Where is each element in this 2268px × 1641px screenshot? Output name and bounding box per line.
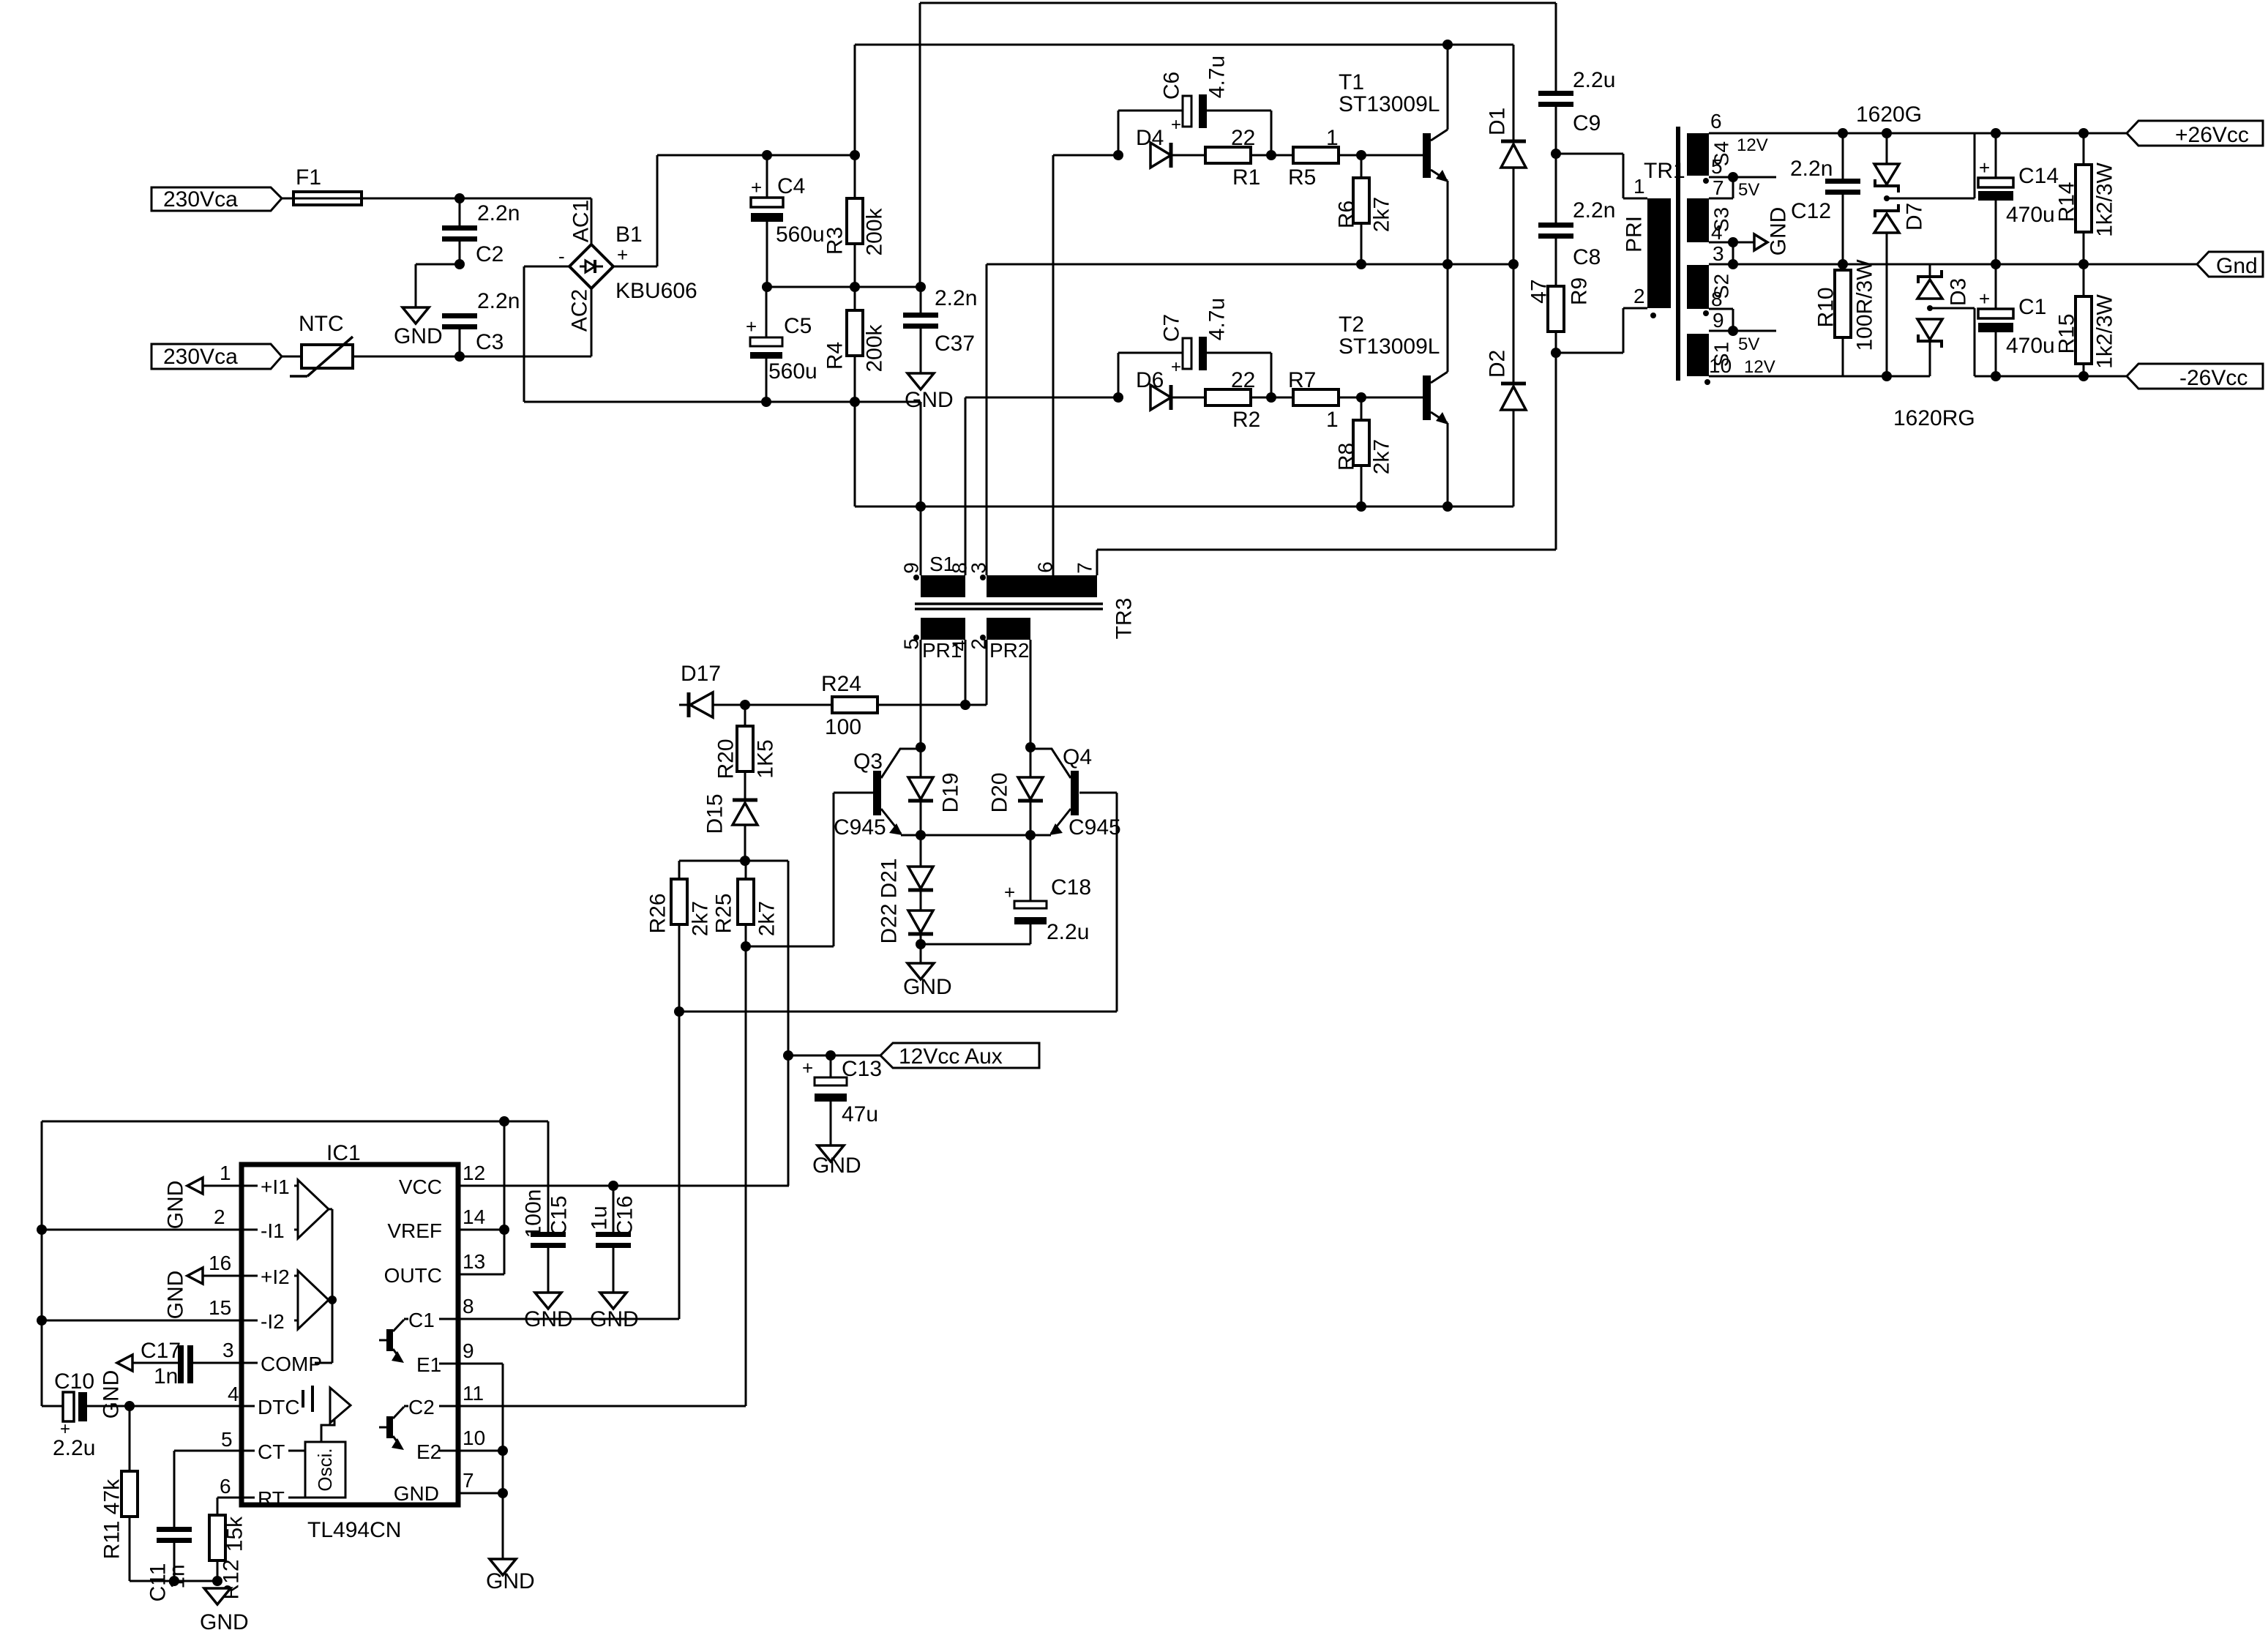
TR1 secondary S1 — [1687, 334, 1775, 377]
svg-text:3: 3 — [1713, 242, 1724, 265]
capacitor C17 1n — [141, 1339, 242, 1388]
junction C1 bottom — [1991, 371, 2001, 381]
left feedback rail — [42, 1116, 548, 1406]
diode D1 — [1486, 45, 1527, 264]
fuse F1 — [293, 165, 362, 205]
svg-text:GND: GND — [524, 1307, 573, 1331]
svg-text:R6: R6 — [1335, 201, 1359, 228]
resistor R25 2k7 — [712, 861, 779, 946]
capacitor C4 560u — [751, 155, 825, 287]
TR1 phase dots — [1703, 178, 1710, 385]
IC1 box — [242, 1141, 458, 1542]
svg-text:22: 22 — [1231, 368, 1255, 392]
wire PR1 pin5 down — [920, 640, 922, 747]
wire top rail to C15 — [547, 1121, 550, 1233]
capacitor C7 4.7u loop — [1118, 298, 1271, 397]
svg-text:+I2: +I2 — [261, 1266, 290, 1288]
svg-text:8: 8 — [1711, 288, 1723, 310]
svg-text:5: 5 — [1711, 155, 1723, 178]
junction R8 bottom — [1356, 501, 1366, 512]
transistor T2 ST13009L — [1339, 264, 1448, 506]
junction D15/R25/R26 — [740, 856, 750, 866]
junction D7 bottom — [1882, 371, 1892, 381]
svg-text:C945: C945 — [1068, 815, 1121, 840]
IC output transistor 2 — [379, 1396, 458, 1463]
wire pin4 DTC — [124, 1383, 242, 1411]
wire R25 junction down to pin11 wire — [745, 946, 747, 1406]
wire pin2 -I1 — [37, 1205, 242, 1235]
transistor Q3 C945 — [834, 749, 921, 840]
wire F1 to C2 top junction — [362, 193, 465, 203]
junction R2/R7 — [1251, 392, 1293, 403]
wire pin7 GND — [458, 1469, 508, 1498]
svg-text:+26Vcc: +26Vcc — [2175, 123, 2249, 147]
TR1 secondary S3 — [1687, 198, 1733, 244]
junction R6 bottom — [1356, 259, 1366, 269]
junction R15 bottom — [2078, 371, 2089, 381]
svg-text:+: + — [1979, 288, 1990, 310]
svg-text:1u: 1u — [588, 1205, 612, 1230]
TR1 secondary S2 — [1687, 265, 1733, 310]
svg-text:R15: R15 — [2055, 313, 2079, 354]
TR1 pin5/7 tap — [1709, 172, 1776, 200]
svg-text:13: 13 — [463, 1250, 485, 1273]
wire PR2 right pin down — [1030, 640, 1032, 747]
svg-text:15: 15 — [209, 1296, 231, 1319]
svg-text:200k: 200k — [863, 324, 887, 372]
junction R4 bottom — [850, 397, 860, 407]
diode D19 — [908, 747, 963, 835]
transformer TR1 label — [1644, 159, 1685, 183]
dual diode D7 1620G — [1874, 128, 1975, 376]
TR3 core — [915, 604, 1103, 609]
svg-text:GND: GND — [903, 975, 952, 999]
ground GND (R12) — [200, 1588, 249, 1634]
svg-text:+: + — [802, 1057, 813, 1079]
svg-text:CT: CT — [258, 1440, 285, 1463]
capacitor C5 560u — [746, 287, 817, 402]
wire R25 to Q3 base — [746, 793, 873, 946]
svg-text:-I2: -I2 — [261, 1310, 285, 1333]
svg-text:7: 7 — [1713, 176, 1724, 199]
resistor R26 2k7 — [646, 879, 713, 1012]
resistor R10 100R/3W — [1814, 259, 1877, 376]
svg-text:R1: R1 — [1232, 165, 1260, 190]
svg-text:1K5: 1K5 — [754, 739, 778, 778]
wire B1- down to return bus — [524, 266, 766, 402]
svg-text:2.2n: 2.2n — [1573, 198, 1615, 223]
svg-text:GND: GND — [812, 1154, 861, 1178]
junction C14/C1 on Gnd rail — [1991, 259, 2001, 269]
svg-text:TL494CN: TL494CN — [307, 1518, 401, 1542]
svg-text:D19: D19 — [939, 772, 963, 812]
svg-text:PR2: PR2 — [989, 639, 1029, 662]
svg-text:Osci.: Osci. — [314, 1448, 336, 1491]
svg-text:12V: 12V — [1744, 357, 1775, 377]
junction D19 bottom — [916, 830, 926, 840]
wire pin11 C2 — [458, 1382, 746, 1406]
transistor Q4 C945 — [1030, 745, 1121, 840]
ground GND (C16) — [590, 1293, 639, 1331]
thermistor NTC — [290, 312, 353, 376]
svg-text:+: + — [1171, 357, 1181, 377]
net flag -26Vcc — [2127, 364, 2263, 390]
svg-text:R2: R2 — [1232, 408, 1260, 432]
wire TR3 pin8 to T2 base row — [965, 397, 1118, 575]
wire bottom RC row — [130, 1576, 222, 1586]
TR3 winding PR2 — [968, 618, 1031, 662]
resistor R4 200k — [823, 287, 887, 402]
junction D6 anode — [1113, 392, 1123, 403]
svg-text:R26: R26 — [646, 893, 670, 933]
svg-text:D3: D3 — [1947, 278, 1971, 306]
wire VCC riser — [787, 1055, 790, 1186]
svg-text:-I1: -I1 — [261, 1219, 285, 1242]
svg-text:2: 2 — [214, 1205, 225, 1228]
svg-text:OUTC: OUTC — [384, 1264, 442, 1287]
svg-text:230Vca: 230Vca — [163, 187, 238, 212]
junction pin9 on return rail — [916, 501, 926, 575]
svg-text:+: + — [746, 315, 757, 337]
wire pin10 E2 — [458, 1427, 508, 1456]
wire D17 to junction — [713, 700, 750, 710]
svg-text:R9: R9 — [1568, 277, 1592, 305]
resistor R2 22 — [1205, 368, 1260, 432]
wire junction to B1 AC1 — [460, 198, 591, 244]
wire flag to NTC — [282, 356, 300, 358]
svg-text:C16: C16 — [613, 1195, 637, 1236]
svg-text:C1: C1 — [2018, 295, 2046, 319]
svg-text:2: 2 — [1633, 285, 1645, 307]
svg-text:KBU606: KBU606 — [615, 279, 697, 303]
IC pin names right — [384, 1175, 442, 1505]
capacitor C14 470u — [1978, 128, 2059, 264]
svg-text:47u: 47u — [842, 1102, 878, 1126]
svg-text:C15: C15 — [547, 1195, 572, 1236]
svg-text:D7: D7 — [1903, 203, 1927, 231]
svg-text:230Vca: 230Vca — [163, 345, 238, 369]
diode D4 — [1136, 126, 1171, 168]
svg-text:Q4: Q4 — [1063, 745, 1092, 769]
net flag Gnd — [2197, 252, 2263, 278]
svg-text:D1: D1 — [1486, 108, 1510, 135]
transistor T1 ST13009L — [1339, 45, 1448, 264]
svg-text:T1: T1 — [1339, 70, 1364, 94]
svg-text:2.2u: 2.2u — [1573, 68, 1615, 92]
svg-text:2k7: 2k7 — [755, 901, 779, 936]
wire pin6 RT — [217, 1475, 242, 1498]
svg-text:R5: R5 — [1288, 165, 1316, 190]
svg-text:C13: C13 — [842, 1057, 882, 1081]
svg-text:2.2u: 2.2u — [53, 1436, 95, 1460]
junction R9 bottom / TR1 pin2 — [1551, 285, 1656, 358]
svg-text:2.2n: 2.2n — [1790, 157, 1833, 181]
TR1 secondary S4 — [1687, 110, 1768, 178]
svg-text:-26Vcc: -26Vcc — [2179, 366, 2248, 390]
svg-text:C6: C6 — [1160, 72, 1184, 100]
resistor R9 47 — [1527, 277, 1592, 353]
svg-text:11: 11 — [463, 1382, 484, 1405]
svg-text:DTC: DTC — [258, 1396, 300, 1418]
svg-text:6: 6 — [220, 1475, 231, 1498]
svg-text:R24: R24 — [821, 672, 861, 696]
svg-text:C18: C18 — [1051, 875, 1091, 900]
wire NTC to C3 junction — [353, 356, 460, 358]
junction Q3 collector / D19 / PR1 — [916, 742, 926, 752]
junction C2/C3 with GND tap — [416, 259, 465, 307]
resistor R7 1 — [1288, 368, 1339, 432]
svg-text:C1: C1 — [408, 1309, 435, 1331]
svg-text:D21: D21 — [877, 858, 902, 898]
dual diode D3 1620RG — [1917, 264, 1975, 376]
diode D22 — [877, 891, 934, 944]
svg-text:GND: GND — [905, 388, 954, 412]
wire D4 to R1 — [1171, 154, 1205, 157]
svg-text:10: 10 — [463, 1427, 485, 1449]
diode D2 — [1486, 264, 1527, 506]
svg-text:VREF: VREF — [387, 1219, 442, 1242]
svg-text:1: 1 — [220, 1162, 231, 1184]
wire pin1 +I1 — [203, 1162, 242, 1186]
svg-text:7: 7 — [1074, 562, 1096, 574]
svg-text:22: 22 — [1231, 126, 1255, 150]
wire return rail (bottom) — [855, 506, 1513, 508]
junction R5/R6/T1 base — [1339, 150, 1423, 160]
resistor R1 22 — [1205, 126, 1260, 190]
svg-text:R8: R8 — [1335, 443, 1359, 471]
svg-text:GND: GND — [164, 1181, 188, 1230]
capacitor C16 1u — [588, 1186, 637, 1293]
svg-text:RT: RT — [258, 1487, 285, 1510]
TR1 primary winding — [1623, 198, 1672, 308]
resistor R12 15k — [209, 1498, 247, 1600]
svg-text:8: 8 — [463, 1295, 474, 1317]
wire return bus down to TR3 side — [766, 402, 921, 506]
svg-text:D4: D4 — [1136, 126, 1164, 150]
svg-text:R3: R3 — [823, 227, 847, 255]
svg-text:ST13009L: ST13009L — [1339, 334, 1440, 359]
junction T1 emitter / T2 collector / mid rail — [1442, 259, 1453, 269]
junction C16 top — [608, 1181, 618, 1191]
svg-text:3: 3 — [968, 562, 990, 574]
svg-text:AC1: AC1 — [569, 200, 594, 242]
TR3 phase dots — [913, 575, 986, 640]
svg-text:2k7: 2k7 — [1370, 439, 1394, 474]
ground GND (driver) — [903, 944, 952, 999]
wire -26V rail (left segment) — [1709, 375, 1930, 378]
svg-text:1620G: 1620G — [1856, 102, 1922, 127]
svg-text:5: 5 — [900, 638, 923, 650]
ground GND (input filter) — [394, 307, 443, 348]
resistor R6 2k7 — [1335, 155, 1394, 264]
svg-text:12Vcc Aux: 12Vcc Aux — [899, 1044, 1003, 1069]
svg-text:C17: C17 — [141, 1339, 181, 1363]
svg-text:1k2/3W: 1k2/3W — [2093, 294, 2117, 368]
svg-text:470u: 470u — [2006, 203, 2055, 227]
svg-text:TR3: TR3 — [1112, 598, 1137, 640]
junction R7/R8/T2 base — [1339, 392, 1423, 403]
svg-text:2k7: 2k7 — [1370, 197, 1394, 232]
svg-text:9: 9 — [900, 562, 923, 574]
svg-text:2.2n: 2.2n — [477, 289, 520, 313]
resistor R20 1K5 — [714, 705, 778, 800]
svg-text:+: + — [1979, 157, 1990, 179]
ground GND (C13) — [812, 1145, 861, 1178]
diode D21 — [877, 835, 934, 899]
svg-text:F1: F1 — [296, 165, 321, 190]
svg-text:4: 4 — [1711, 221, 1723, 244]
wire pin16 +I2 — [203, 1252, 242, 1276]
svg-text:T2: T2 — [1339, 313, 1364, 337]
ground GND (C15) — [524, 1293, 573, 1331]
svg-text:D6: D6 — [1136, 368, 1164, 392]
svg-text:+: + — [1171, 115, 1181, 135]
TR1 pin8/9 tap — [1709, 309, 1776, 354]
svg-text:VCC: VCC — [399, 1175, 442, 1198]
wire pin9 E1 — [458, 1339, 503, 1559]
svg-text:AC2: AC2 — [568, 289, 592, 332]
svg-text:+: + — [1004, 881, 1015, 903]
wire -26V rail (right segment) — [1975, 375, 2127, 378]
TR1 pin4/3 tap with GND — [1709, 207, 1791, 269]
capacitor C13 47u — [802, 1055, 882, 1145]
svg-text:C2: C2 — [408, 1396, 435, 1418]
svg-text:C2: C2 — [476, 242, 504, 266]
junction C9/C8/TR1 pin1 — [1551, 149, 1647, 198]
junction R25 bottom — [741, 941, 751, 952]
capacitor C15 100n — [522, 1189, 572, 1293]
svg-text:Gnd: Gnd — [2216, 254, 2258, 278]
svg-text:ST13009L: ST13009L — [1339, 92, 1440, 116]
IC output transistor 1 — [379, 1309, 458, 1376]
wire pin5 CT — [174, 1428, 242, 1451]
svg-text:D15: D15 — [703, 793, 727, 834]
junction R14/R15 on Gnd rail — [2078, 259, 2089, 269]
capacitor C6 4.7u loop — [1118, 56, 1271, 155]
wire PR1 pin4 down — [965, 640, 967, 705]
svg-text:R14: R14 — [2055, 182, 2079, 222]
wire pin8 C1 — [458, 1295, 679, 1319]
ground flag pin16 — [164, 1268, 203, 1319]
svg-text:4.7u: 4.7u — [1205, 56, 1230, 98]
junction T1 collector on +bus — [1442, 40, 1453, 50]
svg-text:9: 9 — [463, 1339, 474, 1362]
capacitor C8 2.2n — [1538, 154, 1615, 286]
resistor R3 200k — [823, 155, 887, 287]
svg-text:15k: 15k — [223, 1516, 247, 1552]
capacitor C3 — [442, 289, 520, 356]
svg-text:GND: GND — [200, 1610, 249, 1634]
diode D15 — [703, 793, 758, 861]
svg-text:470u: 470u — [2006, 334, 2055, 358]
bridge rectifier B1 KBU606 — [558, 200, 697, 332]
svg-text:GND: GND — [394, 324, 443, 348]
svg-text:NTC: NTC — [299, 312, 344, 336]
wire bias row — [679, 861, 788, 1055]
svg-text:IC1: IC1 — [326, 1141, 361, 1165]
svg-text:C945: C945 — [834, 815, 886, 840]
capacitor C1 470u — [1978, 264, 2055, 376]
wire B1+ up to DC bus — [613, 155, 767, 266]
ground GND (C37) — [905, 373, 954, 412]
svg-text:R10: R10 — [1814, 287, 1838, 327]
wire pin15 -I2 — [37, 1296, 242, 1326]
svg-text:C37: C37 — [935, 332, 975, 356]
svg-text:200k: 200k — [863, 207, 887, 255]
capacitor C9 2.2u — [1538, 3, 1615, 154]
svg-text:2.2n: 2.2n — [935, 286, 977, 310]
junction C4 top — [762, 150, 772, 160]
svg-text:12: 12 — [463, 1162, 485, 1184]
svg-text:GND: GND — [486, 1569, 535, 1593]
wire emitter row — [901, 834, 1051, 837]
svg-text:5: 5 — [221, 1428, 233, 1451]
svg-text:5V: 5V — [1738, 334, 1759, 354]
junction Q4 collector / D20 / PR2 — [1025, 742, 1036, 752]
wire R26 to Q4 base — [679, 793, 1117, 1012]
ground flag C17 — [100, 1355, 179, 1418]
label 1620RG — [1893, 406, 1975, 430]
svg-text:1: 1 — [1326, 408, 1339, 432]
diode D6 — [1136, 368, 1171, 410]
svg-text:C12: C12 — [1791, 199, 1831, 223]
svg-text:C14: C14 — [2018, 164, 2059, 188]
resistor R14 1k2/3W — [2055, 128, 2117, 264]
IC error amp 1 — [294, 1180, 329, 1238]
svg-text:E1: E1 — [416, 1353, 441, 1376]
wire R9 bottom to TR3 pin7 — [1097, 353, 1556, 575]
svg-text:D22: D22 — [877, 903, 902, 943]
svg-text:560u: 560u — [768, 359, 817, 384]
svg-text:E2: E2 — [416, 1440, 441, 1463]
IC pin names left — [242, 1175, 322, 1510]
svg-text:D17: D17 — [681, 662, 721, 686]
svg-text:9: 9 — [1713, 309, 1724, 332]
wire pin13 OUTC — [458, 1250, 504, 1274]
capacitor C37 2.2n — [903, 286, 977, 373]
svg-text:R4: R4 — [823, 342, 847, 370]
diode D17 — [679, 662, 721, 717]
IC oscillator block — [305, 1442, 345, 1498]
capacitor C18 2.2u — [921, 835, 1091, 944]
svg-text:10: 10 — [1709, 354, 1732, 377]
wire junction to B1 AC2 — [460, 288, 591, 356]
net flag 12Vcc Aux — [880, 1043, 1039, 1069]
svg-text:4: 4 — [228, 1383, 239, 1405]
wire PR2 pin2 down — [986, 640, 988, 705]
ground GND (IC) — [486, 1559, 535, 1593]
svg-text:R25: R25 — [712, 893, 736, 933]
svg-text:560u: 560u — [776, 223, 825, 247]
svg-text:R7: R7 — [1288, 368, 1316, 392]
junction C5 bottom — [761, 397, 771, 407]
net flag +26Vcc — [2127, 121, 2263, 147]
net flag 230Vca (neutral) — [151, 344, 282, 369]
ground flag pin1 — [164, 1178, 203, 1229]
net flag 230Vca (line) — [151, 187, 282, 212]
svg-text:C4: C4 — [777, 174, 805, 198]
svg-text:4.7u: 4.7u — [1205, 298, 1230, 340]
resistor R8 2k7 — [1335, 397, 1394, 506]
wire TR3 pin6 to T1 base row — [1053, 155, 1118, 575]
svg-text:6: 6 — [1710, 110, 1722, 132]
svg-text:2.2u: 2.2u — [1047, 920, 1089, 944]
svg-text:2k7: 2k7 — [689, 901, 713, 936]
wire VREF/OUTC riser — [504, 1121, 506, 1274]
capacitor C12 2.2n — [1790, 128, 1860, 264]
svg-text:PRI: PRI — [1623, 216, 1647, 253]
wire pin14 VREF — [458, 1205, 509, 1235]
